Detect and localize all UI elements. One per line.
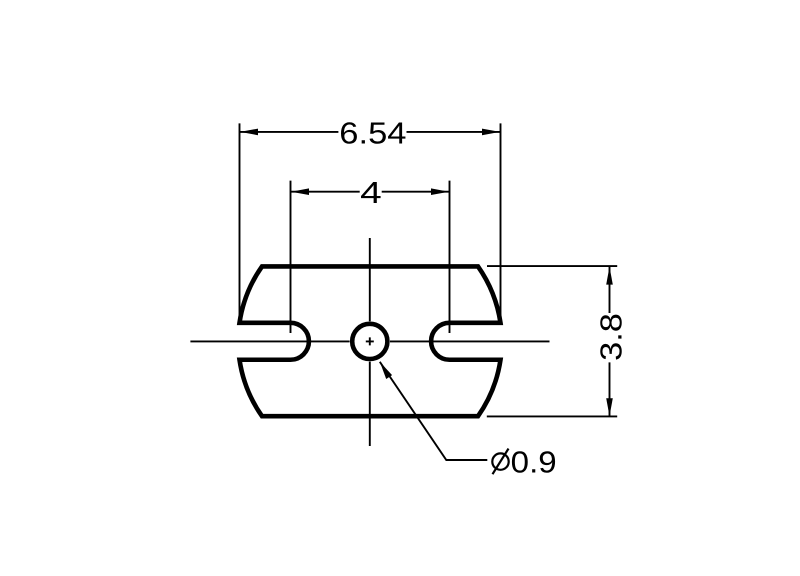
svg-text:0.9: 0.9 (511, 445, 557, 480)
hole center cross (366, 337, 374, 345)
svg-text:6.54: 6.54 (339, 116, 406, 151)
dim 3.8 bottom arrow (606, 398, 613, 416)
diameter symbol slash (493, 449, 509, 475)
dim 4 left extension line (290, 181, 292, 333)
diameter symbol circle (492, 453, 508, 469)
dim 4 right arrow (431, 188, 449, 195)
hole circle (352, 324, 387, 359)
leader line for hole diameter (380, 362, 488, 460)
dim 6.54 left extension line (239, 123, 241, 322)
horizontal centerline (190, 340, 549, 342)
dim 6.54 right arrow (482, 129, 500, 136)
dim 3.8 top extension line (487, 265, 617, 267)
dim 6.54 right extension line (500, 123, 502, 322)
dim 4 left arrow (291, 188, 309, 195)
svg-text:3.8: 3.8 (594, 313, 629, 361)
dim 4 right extension line (449, 181, 451, 333)
svg-text:4: 4 (360, 175, 382, 210)
dim 6.54 left arrow (240, 129, 258, 136)
part outline (240, 266, 501, 416)
dim 4 dimension line (291, 191, 449, 193)
vertical centerline (369, 238, 371, 446)
leader arrowhead (380, 362, 392, 379)
dim 3.8 dimension line (609, 267, 611, 416)
dim 3.8 top arrow (606, 267, 613, 285)
dim 6.54 dimension line (240, 131, 500, 133)
dim 3.8 bottom extension line (487, 415, 617, 417)
